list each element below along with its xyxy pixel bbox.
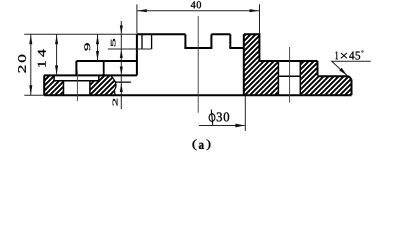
wire: top face between recess and right ledge xyxy=(211,33,230,35)
node: hub right wall x=259.4 xyxy=(258,33,260,61)
wire: dim 40 extension line left x=136.9 xyxy=(136,4,138,33)
wire: flange top across right bolt hole xyxy=(278,75,300,77)
value label 2 xyxy=(113,99,118,106)
wire: chamfer 1x45 edge xyxy=(349,76,352,79)
hatch: right ring right of hole xyxy=(300,61,317,95)
node: arrow 40 right xyxy=(250,9,260,12)
node: arrow 5 bottom (points up at y48.9) xyxy=(120,50,123,59)
wire: ring top left y=61 xyxy=(76,60,136,62)
wire: chamfer leader line xyxy=(332,61,371,75)
hatch: hub right wall column xyxy=(244,34,260,95)
node: left bolt hole wall x=89.9 xyxy=(89,81,91,95)
value label 14 xyxy=(38,49,46,66)
wire: right ledge bottom xyxy=(229,47,244,49)
node: right ledge left wall xyxy=(229,34,231,48)
wire: dim 40 extension line right x=259.5 xyxy=(259,4,261,33)
node: bore right wall x=243.8 xyxy=(243,34,245,95)
node: arrow 20 up xyxy=(29,35,32,45)
wire: ring top right y=61 xyxy=(259,60,317,62)
node: arrow 2 top (points down at y75.4) xyxy=(120,67,123,76)
node: left bolt hole centerline x=77.4 xyxy=(76,71,78,101)
node: arrow 9 up xyxy=(96,35,99,45)
node: ring outer wall right x=317.5 xyxy=(317,61,319,75)
wire: phi30 extension line x=245.3 xyxy=(244,96,246,131)
wire: dim 5 and dim 2 shared line x=122.4 xyxy=(120,21,122,109)
wire: dim 40 line y=10.3 xyxy=(137,10,260,12)
value label 20 xyxy=(18,55,26,73)
wire: top face of hub y=34.3 left segment (crosses top slot) xyxy=(137,33,186,35)
node: right bolt hole wall x=278.4 xyxy=(277,61,279,95)
node: part axis centerline x=198.2 xyxy=(197,16,199,113)
node: arrow 20 down xyxy=(29,85,32,95)
wire: dim 20 line x=30.8 xyxy=(30,34,32,95)
node: flange left edge x=44.2 xyxy=(43,75,45,95)
wire: dim 14 line x=56.6 xyxy=(56,34,58,75)
wire: extension+slot bottom line y=48.9 xyxy=(108,48,152,50)
node: right bolt hole wall x=300.3 xyxy=(299,61,301,95)
node: flange right edge x=351.5 xyxy=(351,79,353,95)
node: ring inner step edge x=103.7 xyxy=(103,61,105,75)
node: center recess left wall xyxy=(184,34,186,48)
hatch: flange left rim xyxy=(44,75,54,95)
wire: wavy break line of local section xyxy=(111,75,116,95)
wire: dim 9 line x=97.5 xyxy=(97,34,99,61)
value label paren-open xyxy=(193,139,197,150)
hatch: right ring left of hole xyxy=(259,61,278,95)
value label 40 xyxy=(191,1,201,8)
node: arrow phi30 right xyxy=(235,124,244,128)
value label 1-of-1x45 xyxy=(336,52,339,60)
value label 45-of-1x45 xyxy=(349,52,360,60)
wire: extension line top y=34.3 to left xyxy=(24,33,137,35)
value label 5 xyxy=(111,39,115,46)
node: arrow 14 up xyxy=(55,35,58,45)
wire: flange top right y=76 xyxy=(318,75,349,77)
wire: left recess bottom y=80.8 xyxy=(54,80,99,82)
node: right bolt hole centerline x=289.6 xyxy=(289,47,291,103)
wire: center recess bottom xyxy=(184,47,212,49)
value label x-of-1x45 xyxy=(341,53,347,59)
node: left bolt hole wall x=63.5 xyxy=(63,81,65,95)
node: arrow 5 top (points down at y34.3) xyxy=(120,25,123,34)
wire: top face right of ledge xyxy=(244,33,261,35)
hatch: right flange rim xyxy=(318,76,352,95)
wire: part bottom y=95.2 xyxy=(44,94,351,96)
node: arrow 14 down xyxy=(55,65,58,75)
node: top slot left wall xyxy=(141,34,143,49)
value label phi symbol of phi30 xyxy=(209,110,215,125)
node: ring outer wall left x=76.4 xyxy=(75,61,77,75)
wire: extension line bottom y=95.2 to left xyxy=(24,94,44,96)
value label 9 xyxy=(84,43,90,50)
node: hub left wall x=136.9 xyxy=(136,34,138,75)
node: top slot right wall xyxy=(151,34,153,49)
node: arrow chamfer leader xyxy=(339,68,347,76)
wire: flange top left y=75.4 xyxy=(44,74,137,76)
node: center recess right wall xyxy=(210,34,212,48)
wire: dim phi30 line y=125.5 xyxy=(199,125,245,127)
value label paren-close xyxy=(207,139,211,150)
value label 30 xyxy=(217,112,229,121)
wire: step ledge line y=82.1 at hub base xyxy=(115,81,131,83)
node: arrow 2 bottom (points up at y82.6) xyxy=(120,84,123,93)
hatch: right of bolt hole up to wavy line xyxy=(90,75,116,95)
node: left recess wall x=54.1 xyxy=(53,75,55,80)
node: left recess wall x=98.8 xyxy=(98,75,100,80)
node: arrow 40 left xyxy=(137,9,147,12)
node: arrow 9 down xyxy=(96,51,99,61)
value label a-caption xyxy=(199,143,204,149)
hatch: left of bolt hole xyxy=(54,81,63,95)
value label deg-of-1x45 xyxy=(362,51,364,53)
